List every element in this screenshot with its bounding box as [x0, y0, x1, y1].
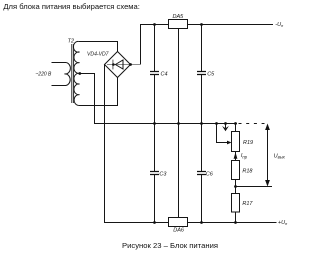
- transformer T2 primary winding: [52, 63, 71, 86]
- svg-text:R18: R18: [242, 168, 253, 174]
- wire C6 column: [201, 124, 203, 223]
- diode cathode bar: [112, 60, 114, 70]
- svg-text:Uвых: Uвых: [274, 153, 286, 159]
- diode axis gray line to top rail drop: [107, 64, 140, 66]
- svg-text:~220 В: ~220 В: [35, 72, 51, 78]
- wire secondary bottom lead to bridge bottom vertex: [78, 78, 117, 106]
- node bottom rail C6: [200, 221, 203, 224]
- wire bottom rail +Uп from bridge left vertex: [105, 65, 277, 223]
- capacitor C3: [150, 172, 159, 175]
- svg-text:C6: C6: [206, 171, 214, 177]
- node middle rail R19: [234, 122, 237, 125]
- dimension line Uвых: [267, 129, 269, 182]
- diode anode dot: [112, 63, 115, 66]
- bridge rectifier VD4-VD7 diamond: [105, 52, 131, 78]
- node bottom rail R17: [234, 221, 237, 224]
- regulator DA5: [169, 20, 188, 29]
- node top rail C5: [200, 23, 203, 26]
- resistor R17: [232, 194, 240, 213]
- capacitor C5: [197, 72, 206, 75]
- svg-text:C5: C5: [207, 71, 215, 77]
- wire middle rail (common from tap): [80, 74, 238, 124]
- capacitor C6: [197, 172, 206, 175]
- node middle rail chevron: [224, 122, 227, 125]
- node: junction dots: [78, 23, 237, 224]
- dimension arrow down: [265, 180, 270, 187]
- wire R18/R17 junction branch to dimension: [236, 186, 273, 188]
- transformer core: [72, 44, 74, 103]
- wire R19 top: [235, 124, 237, 132]
- wiper arrowhead into R19: [227, 141, 232, 145]
- svg-text:VD4-VD7: VD4-VD7: [87, 52, 109, 58]
- svg-text:Iпр: Iпр: [241, 153, 248, 160]
- resistor R18: [232, 161, 240, 180]
- wire R19 to R18: [235, 152, 237, 161]
- wire chevron stub on middle rail: [225, 124, 227, 129]
- node R18/R17 junction: [234, 185, 237, 188]
- svg-text:C3: C3: [159, 171, 167, 177]
- svg-text:Рисунок 23 – Блок питания: Рисунок 23 – Блок питания: [122, 241, 218, 250]
- svg-text:Для блока питания выбирается с: Для блока питания выбирается схема:: [3, 2, 140, 11]
- node top rail C4: [153, 23, 156, 26]
- wire C4 column: [154, 25, 156, 124]
- svg-text:T2: T2: [68, 39, 74, 45]
- regulator DA6: [169, 218, 188, 227]
- node bridge right vertex: [129, 63, 132, 66]
- node transformer tap: [78, 72, 81, 75]
- svg-text:R17: R17: [242, 201, 253, 207]
- capacitor C4: [150, 72, 159, 75]
- transformer T2 secondary winding: [73, 41, 79, 105]
- node middle rail C4/C3: [153, 122, 156, 125]
- wire C5 column: [201, 25, 203, 124]
- svg-text:DA6: DA6: [173, 228, 185, 234]
- node bottom rail C3: [153, 221, 156, 224]
- dimension arrow up: [265, 124, 270, 131]
- node middle rail C5/C6: [200, 122, 203, 125]
- wire secondary top lead to bridge top vertex: [78, 42, 117, 52]
- current arrow Iпр between R19 and R18: [234, 152, 238, 159]
- wire DA5-DA6 ground pin column: [178, 29, 180, 218]
- svg-text:R19: R19: [243, 140, 253, 146]
- wire top-left drop to bridge: [140, 24, 142, 65]
- wire R17 bottom: [235, 212, 237, 223]
- svg-text:DA5: DA5: [173, 14, 185, 20]
- chevron arrow on middle rail: [222, 126, 229, 131]
- wire middle rail dashed extension: [239, 123, 265, 125]
- svg-text:C4: C4: [161, 71, 168, 77]
- wire top rail -Uп: [141, 24, 274, 26]
- diode triangle: [115, 60, 123, 69]
- resistor R19 (potentiometer): [232, 132, 240, 152]
- wire C3 column: [154, 124, 156, 223]
- wire R19 wiper loop: [217, 124, 228, 143]
- wire R18 to R17: [235, 180, 237, 194]
- node middle rail wiper: [215, 122, 218, 125]
- node middle rail DA pin: [177, 122, 180, 125]
